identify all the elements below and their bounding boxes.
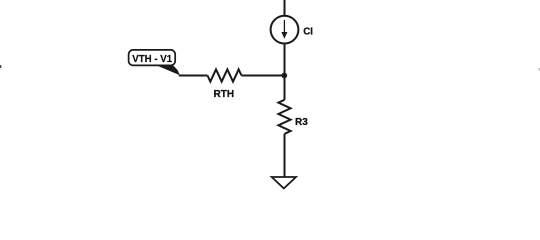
wire top feed into current source bbox=[284, 0, 286, 16]
callout pointer bbox=[156, 65, 180, 75]
ground bbox=[272, 177, 296, 188]
svg-text:CI: CI bbox=[303, 26, 313, 37]
left-edge artifact mark bbox=[0, 65, 1, 68]
right-edge faint artifact mark bbox=[539, 68, 540, 71]
svg-text:R3: R3 bbox=[295, 117, 308, 128]
resistor R3 bbox=[278, 100, 290, 134]
svg-text:VTH - V1: VTH - V1 bbox=[132, 54, 172, 65]
wire from current source down to junction bbox=[284, 44, 286, 76]
net label VTH - V1 flag bbox=[129, 50, 180, 75]
wire from label pointer to resistor RTH bbox=[179, 75, 208, 77]
wire from R3 to ground bbox=[284, 134, 286, 177]
resistor RTH bbox=[208, 69, 242, 81]
junction node bbox=[281, 73, 287, 79]
wire from junction down to R3 bbox=[284, 76, 286, 100]
svg-text:RTH: RTH bbox=[214, 89, 235, 100]
wire from RTH to junction bbox=[242, 75, 285, 77]
current source CI bbox=[271, 16, 299, 44]
